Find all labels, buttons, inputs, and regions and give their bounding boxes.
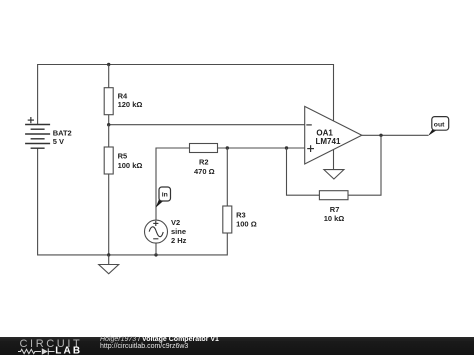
logo CircuitLab [0,337,95,356]
svg-text:10 kΩ: 10 kΩ [324,214,345,223]
label BAT2 value [53,129,72,147]
node junction bottom rail ground [107,253,110,256]
svg-text:R7: R7 [330,205,340,214]
wire op-amp output [362,134,429,136]
resistor R3 [223,206,232,233]
svg-text:V2: V2 [171,218,180,227]
resistor R2 [190,144,218,153]
svg-text:120 kΩ: 120 kΩ [118,100,143,109]
footer bar [0,337,474,356]
wire R5 bottom stub [108,174,110,255]
svg-text:OA1: OA1 [316,128,333,137]
label out [434,122,445,129]
wire middle rail to op-amp inverting input [109,124,305,126]
node junction top rail R4 [107,63,110,66]
svg-text:2 Hz: 2 Hz [171,236,187,245]
resistor R7 [319,191,348,200]
wire op-amp V- pin [333,150,335,170]
label R2 value [194,157,215,176]
wire R2 to op-amp noninverting input [218,147,305,149]
flag in [156,187,171,208]
node junction middle rail [107,123,110,126]
node junction bottom rail V2 [154,253,157,256]
label R3 value [236,210,257,228]
label R5 value [118,152,143,171]
label in [162,192,168,199]
svg-text:LAB: LAB [55,345,82,355]
footer title [100,336,219,343]
svg-text:5 V: 5 V [53,137,64,146]
wire V2 bottom stub [155,243,157,255]
svg-text:100 kΩ: 100 kΩ [118,161,143,170]
wire bottom rail [38,148,228,255]
svg-text:470 Ω: 470 Ω [194,167,215,176]
svg-text:sine: sine [171,227,186,236]
node junction R2 R3 [226,146,229,149]
resistor R4 [104,88,113,115]
resistor R5 [104,147,113,174]
label R7 value [324,205,345,223]
svg-text:R2: R2 [199,157,209,166]
voltage source V2 [145,220,168,243]
wire R3 top stub [226,148,228,206]
battery BAT2 [25,117,50,148]
ground GND1 [99,255,119,274]
flag out [428,117,449,136]
label V2 value [171,218,187,245]
wire V2 top stub [156,148,190,220]
label R4 value [118,92,143,109]
ground GND2 [324,170,344,179]
svg-text:in: in [162,192,168,199]
svg-text:100 Ω: 100 Ω [236,219,257,228]
wire R4 top stub [108,65,110,88]
wire feedback right [348,135,381,195]
svg-text:LM741: LM741 [316,137,341,146]
svg-text:R5: R5 [118,152,128,161]
op-amp OA1 [305,106,362,164]
wire feedback left [287,148,320,195]
wire R4 bottom stub [108,115,110,125]
label OA1 [316,128,341,146]
node junction feedback noninverting [285,146,288,149]
wire R5 top stub [108,125,110,147]
svg-text:R3: R3 [236,210,246,219]
svg-text:out: out [434,122,445,129]
footer url [100,343,188,350]
wire top rail from battery to op-amp V+ pin [38,65,334,125]
node junction output feedback [379,134,382,137]
